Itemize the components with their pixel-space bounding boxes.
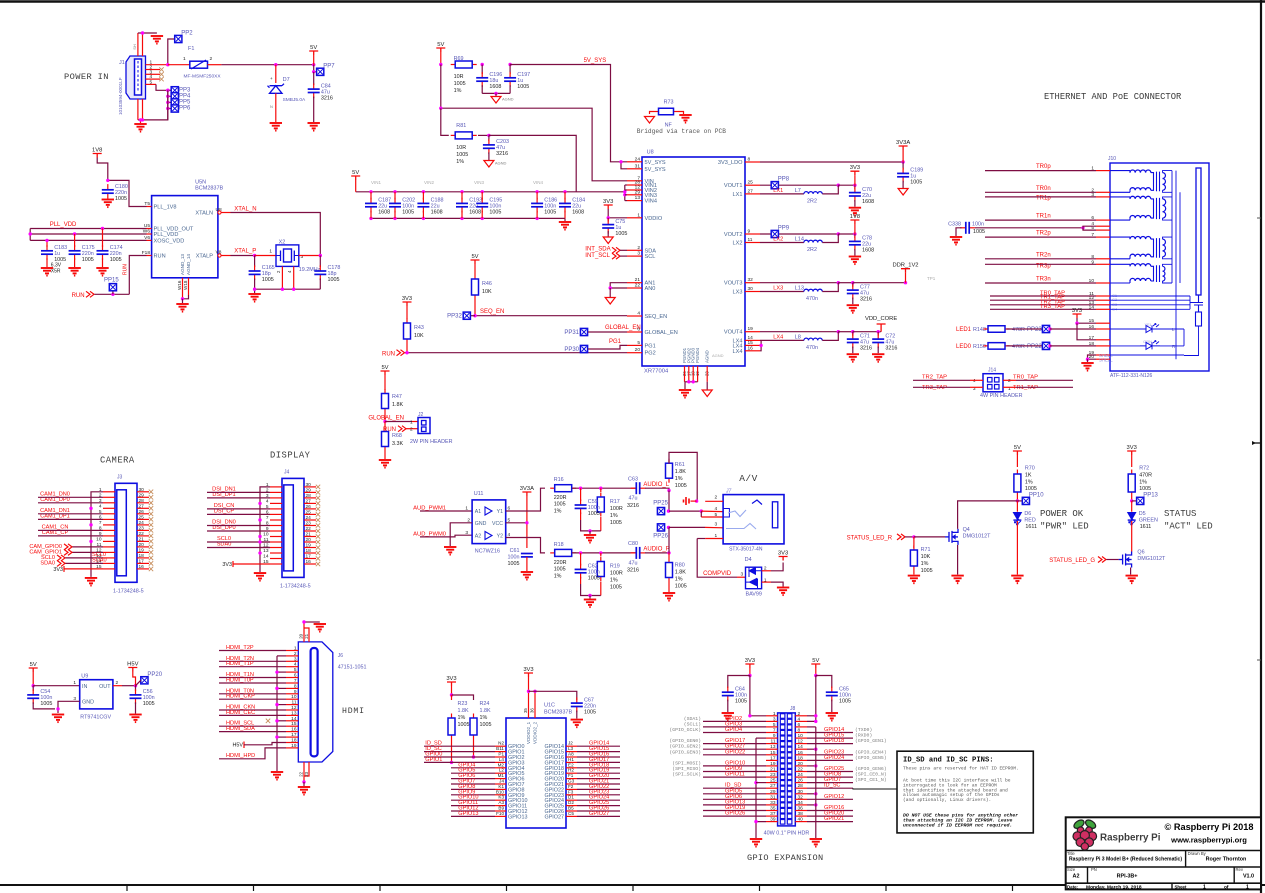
svg-text:1005: 1005	[517, 84, 529, 90]
svg-text:3216: 3216	[860, 345, 872, 351]
svg-text:J6: J6	[338, 653, 344, 659]
svg-text:GLOBAL_EN: GLOBAL_EN	[368, 416, 404, 422]
svg-text:4: 4	[266, 498, 269, 504]
svg-text:STATUS_LED_R: STATUS_LED_R	[847, 535, 893, 541]
svg-text:R18: R18	[554, 542, 564, 548]
J1 pin 1 wire	[146, 64, 168, 66]
svg-text:1%: 1%	[456, 159, 464, 165]
svg-text:Raspberry Pi 3 Model B+ (Reduc: Raspberry Pi 3 Model B+ (Reduced Schemat…	[1069, 857, 1182, 863]
svg-text:R47: R47	[392, 394, 402, 400]
ground under C174	[96, 268, 108, 276]
svg-text:B10: B10	[496, 789, 505, 794]
svg-text:20: 20	[139, 542, 145, 548]
svg-text:1.8K: 1.8K	[480, 708, 491, 714]
svg-text:35: 35	[523, 708, 528, 713]
svg-text:H5V: H5V	[127, 662, 138, 668]
VIN cap bank bottom bus	[371, 217, 565, 219]
svg-text:J10: J10	[1108, 156, 1116, 162]
svg-text:PP10: PP10	[1029, 492, 1044, 498]
ground under C70	[849, 208, 861, 216]
svg-text:16: 16	[748, 345, 754, 351]
J4 left pin stubs	[270, 486, 282, 488]
svg-text:XR77004: XR77004	[644, 369, 669, 375]
svg-text:A/V: A/V	[739, 473, 758, 484]
svg-text:21: 21	[304, 633, 309, 638]
net label GLOBAL_EN at J2	[384, 413, 386, 422]
svg-text:(SPI_SCLK): (SPI_SCLK)	[672, 772, 701, 778]
svg-text:40: 40	[798, 817, 804, 823]
svg-text:J4: J4	[499, 779, 504, 784]
resistor R19 100R	[600, 553, 602, 557]
svg-text:GPIO13: GPIO13	[508, 814, 527, 820]
wire L8 to output node	[822, 332, 838, 341]
capacitor C59 100n 1005	[580, 488, 582, 501]
svg-text:1005: 1005	[40, 701, 52, 707]
svg-text:1005: 1005	[82, 257, 94, 263]
test point PP7	[314, 65, 317, 72]
svg-text:BCM2837B: BCM2837B	[195, 186, 223, 192]
wire 1V8 to PLL_1V8	[97, 158, 146, 207]
test point PP9	[771, 230, 778, 237]
svg-text:DDR_1V2: DDR_1V2	[892, 263, 918, 269]
ground under C175	[68, 268, 80, 276]
ground under C64	[722, 713, 734, 721]
inductor L14 2R2	[760, 242, 804, 244]
svg-text:1005: 1005	[262, 277, 274, 283]
svg-text:PP2: PP2	[181, 31, 193, 37]
svg-text:21: 21	[770, 767, 776, 773]
svg-text:27: 27	[748, 188, 754, 194]
svg-text:Size: Size	[1067, 867, 1076, 872]
svg-text:1005: 1005	[588, 511, 600, 517]
svg-text:TR0n: TR0n	[1036, 186, 1051, 192]
svg-text:1V8: 1V8	[92, 148, 102, 154]
J8 3V3 wire to pin1	[750, 676, 766, 716]
J8 left ground bus	[756, 737, 766, 739]
svg-text:1: 1	[294, 646, 297, 652]
wire PP26 to jack pin3	[669, 526, 705, 528]
svg-text:1-1734248-5: 1-1734248-5	[113, 588, 144, 594]
svg-text:A3: A3	[498, 800, 504, 805]
svg-text:5V: 5V	[30, 662, 37, 668]
svg-text:(GPIO_GEN2): (GPIO_GEN2)	[669, 744, 701, 750]
svg-text:RED: RED	[1024, 518, 1035, 524]
svg-text:4: 4	[294, 662, 297, 668]
svg-text:2R2: 2R2	[807, 247, 817, 253]
svg-text:1.8K: 1.8K	[675, 469, 686, 475]
svg-text:LX4: LX4	[773, 334, 783, 340]
svg-text:G3: G3	[568, 779, 575, 784]
svg-text:1%: 1%	[675, 577, 683, 583]
svg-text:31: 31	[770, 794, 776, 800]
svg-text:7: 7	[773, 728, 776, 734]
J4 right pin stubs with no-connects	[304, 486, 316, 488]
svg-text:(TXD0): (TXD0)	[855, 727, 872, 733]
svg-text:GND: GND	[475, 521, 487, 527]
svg-text:R16: R16	[554, 477, 564, 483]
svg-text:9: 9	[748, 229, 751, 235]
svg-text:PLL_1V8: PLL_1V8	[154, 205, 177, 211]
svg-text:C4: C4	[1112, 306, 1118, 311]
svg-text:J3: J3	[117, 474, 123, 480]
capacitor C203 47u 3216	[488, 135, 490, 141]
svg-text:10: 10	[96, 536, 102, 542]
resistor R80 1.8K	[668, 553, 670, 558]
wire 5V to U9 IN	[33, 685, 79, 687]
svg-text:H2: H2	[568, 768, 574, 773]
svg-text:D4: D4	[745, 557, 752, 563]
svg-text:19: 19	[306, 543, 312, 549]
svg-text:AUDIO_L: AUDIO_L	[643, 482, 669, 488]
J10 shield bus bar	[1196, 168, 1201, 295]
svg-text:5V: 5V	[381, 365, 388, 371]
svg-text:RUN: RUN	[154, 254, 166, 260]
svg-text:19.2MHz: 19.2MHz	[299, 267, 321, 273]
test point PP2	[168, 39, 175, 65]
wire L14 to output node	[822, 234, 838, 243]
svg-text:17: 17	[139, 558, 145, 564]
svg-text:1005: 1005	[675, 584, 687, 590]
svg-text:(GPIO_GEN6): (GPIO_GEN6)	[855, 766, 887, 772]
power flag 3V3 at R23 R24	[447, 682, 456, 686]
svg-text:(GPIO_GCLK): (GPIO_GCLK)	[669, 727, 701, 733]
svg-text:PLL_VDD: PLL_VDD	[154, 232, 179, 238]
svg-text:18: 18	[291, 737, 297, 743]
svg-text:C338: C338	[948, 222, 961, 228]
Q4 source to ground	[957, 545, 959, 575]
svg-text:MF-MSMF250XX: MF-MSMF250XX	[184, 74, 222, 80]
connector J1 micro-USB power	[126, 56, 146, 99]
svg-text:U8: U8	[647, 150, 654, 156]
svg-text:11: 11	[748, 237, 753, 243]
wire SEQ_EN to U8	[475, 315, 627, 317]
svg-text:1611: 1611	[1140, 524, 1152, 530]
svg-text:19: 19	[291, 743, 297, 749]
svg-text:Monday, March 19, 2018: Monday, March 19, 2018	[1086, 885, 1142, 891]
svg-text:Date:: Date:	[1067, 885, 1079, 890]
power flag 5V at cap bank	[351, 176, 360, 180]
svg-text:1005: 1005	[115, 196, 127, 202]
svg-text:LX2: LX2	[773, 237, 783, 243]
svg-text:28: 28	[798, 783, 804, 789]
svg-text:TP1: TP1	[927, 276, 936, 281]
svg-text:R19: R19	[610, 564, 620, 570]
svg-text:VIN4: VIN4	[533, 180, 544, 185]
svg-text:J14: J14	[988, 368, 996, 374]
wire PP10 node to Q4 drain	[958, 501, 1018, 529]
svg-text:XTALN: XTALN	[195, 211, 213, 217]
svg-text:10K: 10K	[921, 554, 931, 560]
svg-text:1005: 1005	[735, 698, 747, 704]
svg-text:U11: U11	[474, 491, 484, 497]
VIN1-4 fan bus	[624, 185, 626, 201]
svg-text:1005: 1005	[508, 561, 520, 567]
svg-text:34: 34	[798, 800, 804, 806]
svg-text:1005: 1005	[544, 210, 556, 216]
svg-text:1%: 1%	[480, 715, 488, 721]
power flag 5V at R46	[471, 260, 480, 264]
svg-text:PP15: PP15	[104, 278, 119, 284]
svg-text:8: 8	[748, 157, 751, 163]
svg-text:13: 13	[770, 744, 776, 750]
svg-text:PP7: PP7	[323, 63, 335, 69]
svg-text:PG2: PG2	[645, 351, 656, 357]
svg-text:12: 12	[291, 705, 297, 711]
test point PP26	[657, 524, 664, 531]
svg-text:RT9741CGV: RT9741CGV	[80, 715, 111, 721]
svg-text:1608: 1608	[572, 210, 584, 216]
chassis ground audio	[684, 497, 690, 505]
svg-text:ID_SD and ID_SC PINS:: ID_SD and ID_SC PINS:	[903, 757, 994, 765]
U8 output rail VDD_CORE	[760, 331, 838, 333]
svg-text:C80: C80	[628, 541, 638, 547]
wire PP25 to jack pins 4 5	[669, 510, 701, 512]
svg-text:© Raspberry Pi 2018: © Raspberry Pi 2018	[1165, 822, 1254, 832]
J1 shield top stubs	[137, 33, 139, 56]
svg-text:PP4: PP4	[179, 93, 191, 99]
svg-text:24: 24	[798, 772, 804, 778]
svg-text:33: 33	[770, 800, 776, 806]
J1 nc pins 2-4	[146, 69, 161, 71]
svg-text:CAM1_DP1: CAM1_DP1	[40, 514, 70, 520]
svg-text:3V3: 3V3	[523, 667, 533, 673]
svg-text:D2: D2	[568, 800, 574, 805]
D6 cathode to ground	[1016, 521, 1018, 575]
svg-text:Y1: Y1	[497, 509, 503, 515]
J6 bottom shield to ground	[302, 780, 305, 783]
svg-text:M2: M2	[498, 762, 505, 767]
svg-text:R43: R43	[414, 325, 424, 331]
svg-text:A2: A2	[475, 534, 481, 540]
capacitor C54 100n 1005	[32, 686, 34, 691]
svg-text:Bridged via trace on PCB: Bridged via trace on PCB	[637, 128, 726, 135]
ground under C62	[588, 594, 591, 597]
Q6 source to ground	[1130, 568, 1132, 575]
svg-text:INT_SDA: INT_SDA	[585, 247, 610, 253]
J1 bottom shield stubs	[137, 99, 139, 120]
svg-text:LX3: LX3	[773, 286, 783, 292]
capacitor C56 100n 1005	[135, 686, 137, 691]
svg-text:30: 30	[306, 482, 312, 488]
svg-text:28: 28	[306, 493, 312, 499]
ground under C78	[849, 257, 861, 265]
svg-text:9: 9	[294, 689, 297, 695]
capacitor C188 22u 1608	[422, 190, 425, 193]
svg-text:1005: 1005	[110, 257, 122, 263]
svg-text:XTAL_N: XTAL_N	[234, 207, 256, 213]
svg-text:10: 10	[798, 733, 804, 739]
test point PP8	[771, 182, 778, 189]
svg-text:1005: 1005	[554, 502, 566, 508]
svg-text:100n: 100n	[972, 222, 984, 228]
svg-text:1%: 1%	[554, 508, 562, 514]
svg-text:C63: C63	[628, 477, 638, 483]
ground under C67	[571, 720, 583, 728]
svg-text:(SPI_CE1_N): (SPI_CE1_N)	[855, 777, 887, 783]
svg-text:3V3: 3V3	[778, 551, 788, 557]
capacitor C72 47u 3216	[853, 331, 881, 333]
svg-text:SEQ_EN: SEQ_EN	[645, 314, 668, 320]
svg-text:VOUT1: VOUT1	[724, 183, 743, 189]
resistor R72 470R	[1131, 470, 1133, 475]
svg-text:AGND: AGND	[705, 350, 710, 363]
AN1 AN0 to AGND	[610, 283, 627, 288]
wire XTALP to crystal	[231, 255, 255, 257]
power flag 3V3 at R43	[403, 302, 412, 306]
svg-text:13: 13	[263, 548, 269, 554]
svg-text:A2: A2	[1073, 874, 1080, 880]
svg-text:7: 7	[266, 515, 269, 521]
ground under U11	[444, 547, 456, 555]
svg-text:3V3: 3V3	[402, 296, 412, 302]
svg-text:GLOBAL_EN: GLOBAL_EN	[645, 330, 678, 336]
AGND under C189	[898, 189, 908, 196]
U1C left pins GPIO0-13	[495, 745, 506, 747]
power flag 5V at J8	[811, 664, 820, 668]
svg-text:25: 25	[748, 180, 754, 186]
svg-text:24: 24	[139, 520, 145, 526]
wire R81 to VIN cap bus	[489, 135, 576, 191]
J3 lower signal wires	[72, 546, 103, 548]
svg-text:1005: 1005	[584, 709, 596, 715]
svg-text:A8: A8	[568, 752, 574, 757]
svg-text:3V3: 3V3	[745, 658, 755, 664]
svg-text:14: 14	[263, 554, 269, 560]
svg-text:1.8K: 1.8K	[458, 708, 469, 714]
svg-text:1: 1	[1246, 885, 1249, 891]
svg-text:26: 26	[139, 509, 145, 515]
svg-text:TR0_TAP: TR0_TAP	[1013, 374, 1038, 380]
svg-text:1: 1	[1203, 885, 1206, 891]
svg-text:220R: 220R	[554, 560, 567, 566]
J3 ground bus	[91, 492, 103, 577]
power flag DDR_1V2	[853, 282, 906, 284]
svg-text:2: 2	[715, 494, 718, 500]
svg-text:N2: N2	[498, 741, 504, 746]
svg-text:RUN: RUN	[382, 352, 395, 358]
svg-text:32: 32	[798, 794, 804, 800]
ground under J8 right	[810, 839, 822, 847]
svg-text:20: 20	[306, 537, 312, 543]
svg-text:SDA0: SDA0	[40, 560, 55, 566]
resistor R17 100R	[600, 488, 602, 492]
power flag 3V3 LED circuit	[1127, 451, 1136, 455]
J3 right pin stubs with no-connects	[137, 491, 149, 493]
J4 scl sda wires	[260, 541, 270, 543]
svg-text:1%: 1%	[610, 578, 618, 584]
svg-text:19: 19	[748, 326, 754, 332]
power flag 3V3 at U1C	[524, 673, 533, 677]
svg-text:1005: 1005	[456, 152, 468, 158]
svg-text:30: 30	[748, 286, 754, 292]
svg-text:RUN: RUN	[123, 264, 129, 275]
capacitor C186 100n 1005	[535, 190, 538, 193]
svg-text:1005: 1005	[1139, 486, 1151, 492]
LED D5 GREEN	[1131, 501, 1133, 512]
svg-text:3V3: 3V3	[603, 199, 613, 205]
junction after R69	[481, 63, 484, 66]
svg-text:3V3_LDO: 3V3_LDO	[718, 160, 743, 166]
inductor L8 470n	[760, 339, 804, 341]
svg-text:1611: 1611	[1025, 524, 1037, 530]
svg-text:TR3n: TR3n	[1036, 277, 1051, 283]
J10 internal transformers	[1110, 170, 1180, 359]
svg-text:PG1: PG1	[609, 339, 622, 345]
svg-text:U9: U9	[81, 674, 88, 680]
transistor Q6 DMG1012T	[1119, 552, 1132, 568]
svg-text:H5V: H5V	[233, 743, 244, 749]
svg-text:32: 32	[748, 277, 754, 283]
svg-text:SEQ_EN: SEQ_EN	[480, 309, 504, 315]
svg-text:15: 15	[748, 340, 754, 346]
wire L7 to output node	[822, 185, 838, 194]
svg-text:B9: B9	[498, 806, 504, 811]
svg-text:29: 29	[770, 789, 776, 795]
svg-text:PGND4: PGND4	[695, 347, 700, 363]
svg-text:26: 26	[798, 778, 804, 784]
capacitor C165 18p 1005	[254, 256, 256, 268]
svg-text:F2: F2	[568, 784, 574, 789]
svg-text:1%: 1%	[675, 476, 683, 482]
svg-text:26: 26	[306, 504, 312, 510]
svg-text:1005: 1005	[610, 520, 622, 526]
svg-text:23: 23	[304, 771, 309, 776]
R61 to jack pin2	[669, 452, 697, 501]
svg-text:3216: 3216	[496, 151, 508, 157]
svg-text:1005: 1005	[910, 180, 922, 186]
ground under J8 left	[750, 839, 762, 847]
svg-text:19: 19	[770, 761, 776, 767]
svg-text:5: 5	[773, 722, 776, 728]
svg-text:PP6: PP6	[179, 106, 191, 112]
power flag 5V LED circuit	[1013, 451, 1022, 455]
svg-text:R17: R17	[610, 499, 620, 505]
connector J6 HDMI body	[298, 642, 333, 762]
U1C right pins GPIO14-27	[566, 745, 577, 747]
svg-text:100n: 100n	[508, 555, 520, 561]
svg-text:1.8K: 1.8K	[675, 570, 686, 576]
inductor L7 2R2	[760, 193, 804, 195]
svg-text:STX-35017-4N: STX-35017-4N	[729, 546, 763, 552]
svg-text:F10: F10	[496, 811, 504, 816]
svg-text:2: 2	[294, 651, 297, 657]
svg-text:1%: 1%	[458, 715, 466, 721]
svg-text:J8: J8	[790, 706, 796, 712]
svg-text:PP31: PP31	[564, 330, 579, 336]
svg-text:R24: R24	[480, 701, 490, 707]
ground under U5N	[176, 304, 188, 312]
svg-text:3: 3	[715, 522, 718, 528]
capacitor C71 47u 3216	[838, 331, 853, 333]
svg-text:D5: D5	[1139, 511, 1146, 517]
svg-text:COMPVID: COMPVID	[703, 571, 732, 577]
capacitor C196 18u 1608	[481, 65, 483, 75]
svg-text:PP8: PP8	[778, 177, 790, 183]
svg-text:22: 22	[635, 283, 641, 289]
ground under J3	[85, 578, 97, 586]
svg-text:CAMERA: CAMERA	[100, 455, 135, 465]
svg-text:(SPI_MOSI): (SPI_MOSI)	[672, 760, 701, 766]
svg-text:(SPI_MISO): (SPI_MISO)	[672, 766, 701, 772]
ground under R71	[908, 576, 920, 584]
J4 ground bus	[260, 487, 270, 572]
svg-text:ETHERNET AND PoE CONNECTOR: ETHERNET AND PoE CONNECTOR	[1044, 92, 1182, 102]
node after R18	[572, 552, 636, 554]
J6 ground bus rows	[277, 655, 286, 657]
svg-text:1%: 1%	[554, 573, 562, 579]
svg-text:35: 35	[770, 805, 776, 811]
svg-text:1%: 1%	[610, 513, 618, 519]
